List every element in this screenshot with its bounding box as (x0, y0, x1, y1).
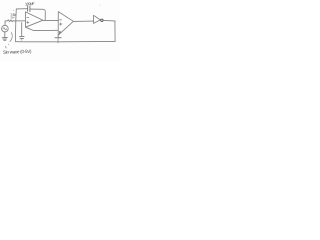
wire right vertical (114, 21, 116, 42)
svg-text:24k: 24k (10, 12, 16, 17)
U2 minus input mark (60, 19, 62, 21)
capacitor C3 to bottom rail at input (19, 23, 24, 39)
wire input to op-amp (15, 20, 26, 22)
pen speck (99, 4, 102, 7)
wire U1 output (43, 19, 58, 21)
wire top feedback right segment (30, 9, 45, 20)
capacitor C1 (28, 6, 30, 12)
op-amp U2 (58, 12, 73, 36)
U1 plus input mark (27, 21, 29, 23)
pen dot (8, 44, 9, 45)
wire below U2 corner to capacitor (57, 35, 59, 37)
pen speck (12, 9, 15, 12)
node junction U2 input (57, 20, 58, 21)
inverter U3 (94, 15, 101, 23)
wire bottom rail (16, 40, 116, 42)
wire U2 output (73, 20, 93, 22)
U3 bubble (101, 19, 103, 21)
small flag mark near C2 (59, 31, 61, 34)
op-amp U1 (25, 12, 43, 27)
wire U3 output (103, 19, 115, 22)
wire U1 corner down to U2 edge junction (26, 27, 58, 30)
node net-in vertical (feedback down to bottom rail) (15, 21, 17, 42)
ground under source (2, 32, 7, 40)
resistor R1 (5, 20, 14, 22)
source V1 sine (4, 21, 6, 25)
svg-text:Sin wave (0-5V): Sin wave (0-5V) (3, 49, 32, 55)
corner blob (114, 21, 115, 22)
capacitor C2 plate above bottom rail (55, 37, 61, 39)
annotation arc from text to source (10, 33, 12, 42)
wire top feedback left segment (16, 9, 27, 21)
U2 plus input mark (60, 23, 62, 25)
U1 minus input mark (27, 16, 29, 18)
